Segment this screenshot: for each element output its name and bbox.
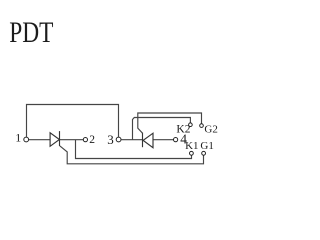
svg-text:2: 2: [89, 134, 95, 146]
terminal circle G1: [202, 151, 206, 155]
wire T2 anode to node 4: [153, 139, 174, 141]
thyristor T1: [50, 131, 59, 146]
svg-text:1: 1: [15, 131, 21, 145]
wire node 1 to thyristor T1 anode: [29, 139, 50, 141]
terminal circle G2: [200, 124, 204, 128]
svg-text:PDT: PDT: [9, 15, 53, 48]
terminal circle node 3: [116, 137, 121, 142]
wire T1 cathode to node 2: [60, 139, 84, 141]
terminal circle node 1: [24, 137, 29, 142]
gate lead of T2 to G2: [138, 113, 202, 133]
terminal circle K2: [189, 123, 193, 127]
terminal circle node 4: [174, 138, 178, 142]
terminal circle node 2: [83, 138, 87, 142]
wire auxiliary cathode K1 from node 2 side: [76, 140, 192, 159]
wire auxiliary cathode K2 from node 3 side: [133, 118, 191, 141]
svg-text:G2: G2: [204, 123, 217, 135]
svg-text:K1: K1: [185, 140, 198, 152]
wire top loop connecting node 1 to node 3: [27, 105, 119, 137]
wire node 3 to thyristor T2 cathode: [121, 139, 142, 141]
thyristor T2: [143, 133, 154, 148]
gate lead of T1 to G1: [60, 146, 204, 164]
terminal circle K1: [190, 151, 194, 155]
svg-text:K2: K2: [176, 123, 190, 135]
svg-text:G1: G1: [200, 140, 213, 152]
svg-text:3: 3: [107, 132, 114, 147]
